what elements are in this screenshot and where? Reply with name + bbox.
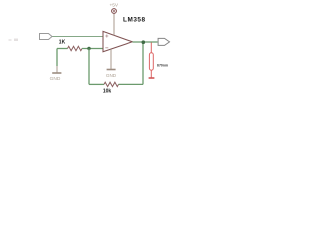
svg-text:GND: GND [50, 76, 61, 82]
svg-text:1K: 1K [59, 40, 66, 46]
svg-text:670nm: 670nm [157, 63, 168, 67]
svg-text:GND: GND [106, 73, 117, 78]
svg-text:+5V: +5V [109, 3, 118, 9]
svg-text:LM358: LM358 [123, 17, 146, 24]
svg-text:10k: 10k [103, 89, 112, 95]
